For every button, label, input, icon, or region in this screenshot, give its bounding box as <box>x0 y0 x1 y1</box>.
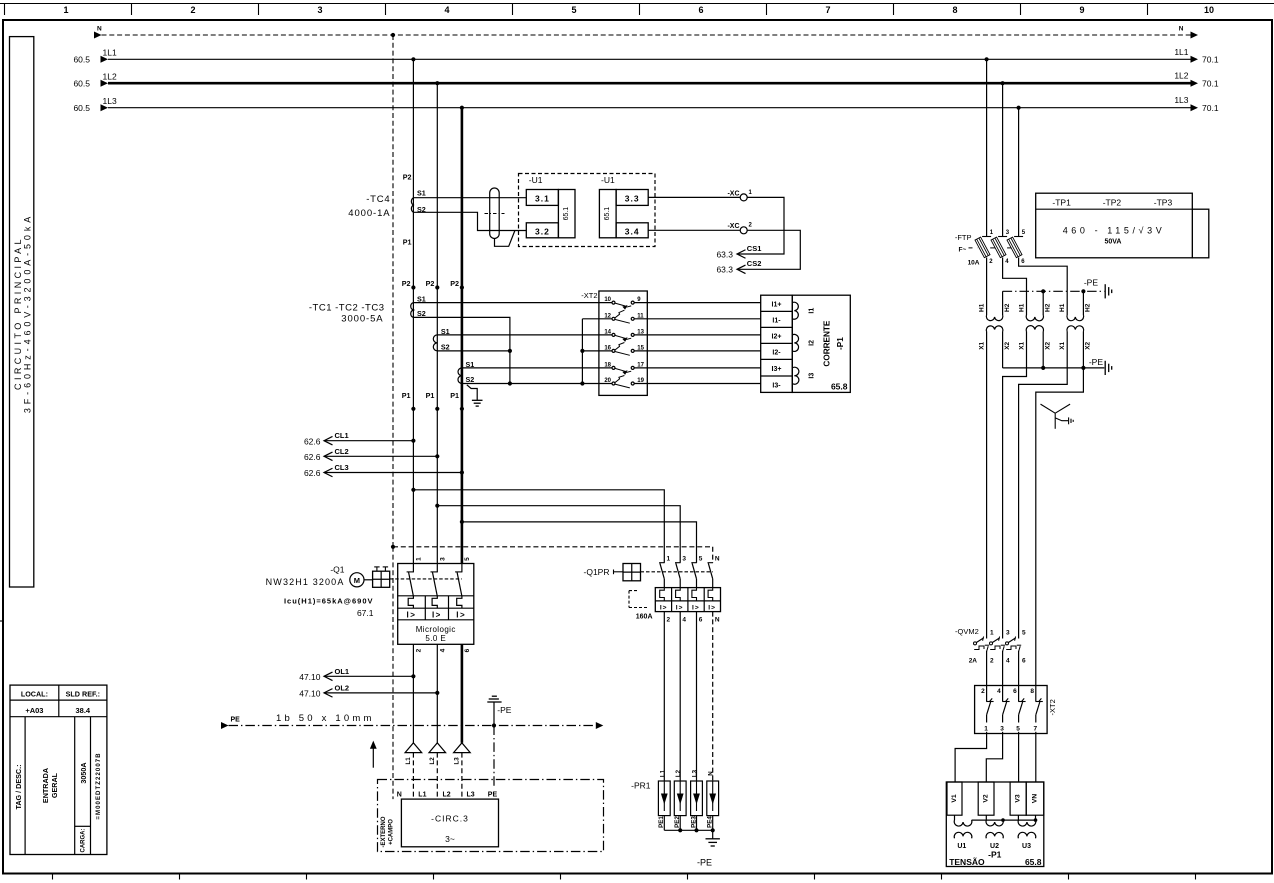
svg-text:2: 2 <box>190 5 195 15</box>
svg-text:50VA: 50VA <box>1105 239 1122 246</box>
svg-text:SLD REF.:: SLD REF.: <box>66 689 100 698</box>
wire TC3 S2 to XT2:20 <box>462 383 612 385</box>
svg-text:3.1: 3.1 <box>535 193 550 203</box>
svg-text:-P1: -P1 <box>988 850 1002 860</box>
svg-text:S1: S1 <box>417 189 426 198</box>
wire FTP1 to TP1 H1 <box>986 258 988 316</box>
svg-text:-PE: -PE <box>697 857 712 867</box>
cable termination L2 <box>429 743 446 799</box>
wire XT2:12 stub <box>582 318 612 320</box>
svg-text:12: 12 <box>604 313 611 319</box>
svg-text:H1: H1 <box>1018 303 1025 312</box>
svg-text:3050A: 3050A <box>79 762 88 783</box>
wire common to XT2:12/16 <box>581 319 583 384</box>
wire XT2 to CORRENTE <box>634 302 761 304</box>
toroid sensor oval <box>485 188 515 246</box>
wire feeder L3 thick <box>461 108 464 564</box>
svg-text:VN: VN <box>1032 794 1039 804</box>
svg-text:N: N <box>397 792 402 799</box>
svg-text:1L3: 1L3 <box>1174 95 1188 105</box>
Q1PR pole 5 <box>691 555 702 623</box>
wire XT2:5 to V3 <box>1018 734 1020 783</box>
svg-text:160A: 160A <box>636 613 653 620</box>
svg-text:1: 1 <box>63 5 68 15</box>
svg-text:N: N <box>1179 26 1184 33</box>
wire feeder L2 below Q1 <box>436 644 438 743</box>
svg-text:38.4: 38.4 <box>75 706 90 715</box>
fuse FTP pole 1/2 <box>975 59 994 265</box>
QVM2 pole 5/6 <box>1006 629 1027 685</box>
meter coil I3 <box>792 367 799 384</box>
svg-text:H1: H1 <box>1059 303 1066 312</box>
node P1 dots <box>402 391 464 411</box>
wire PE drop to CIRC.3 dash-dot <box>493 726 495 789</box>
svg-text:6: 6 <box>1013 688 1017 695</box>
svg-text:I2-: I2- <box>772 350 781 357</box>
svg-text:4: 4 <box>439 648 446 652</box>
svg-text:7: 7 <box>1033 726 1037 733</box>
svg-text:I3-: I3- <box>772 382 781 389</box>
svg-text:3: 3 <box>682 555 686 562</box>
wire XT2 to CORRENTE <box>634 318 761 320</box>
relay U1 dashed enclosure <box>519 174 656 247</box>
svg-text:1: 1 <box>984 726 988 733</box>
field arrow up <box>370 741 377 768</box>
Q1PR pole N <box>708 555 720 623</box>
svg-text:I>: I> <box>676 604 684 611</box>
svg-text:1L1: 1L1 <box>1174 47 1188 57</box>
svg-text:-XT2: -XT2 <box>581 291 597 300</box>
svg-text:P2: P2 <box>450 279 459 288</box>
wire feeder L3 below Q1 thick <box>461 644 464 743</box>
svg-text:-TC4: -TC4 <box>366 194 390 205</box>
svg-text:3.4: 3.4 <box>625 226 640 236</box>
wire Q1PR pole2 down <box>679 612 681 781</box>
svg-text:-PR1: -PR1 <box>631 780 651 790</box>
meter coil I2 <box>792 334 798 351</box>
svg-text:5: 5 <box>1022 629 1026 636</box>
svg-text:6: 6 <box>464 648 471 652</box>
Q1PR sensor/I> block <box>655 588 720 612</box>
terminal block XT2 (CT) <box>581 291 647 396</box>
title box CIRCUITO PRINCIPAL <box>10 37 34 587</box>
svg-text:65.8: 65.8 <box>831 382 848 392</box>
wire XT2 to CORRENTE <box>634 350 761 352</box>
FTP linkage dashes <box>969 247 1012 249</box>
svg-text:GERAL: GERAL <box>50 772 59 798</box>
svg-text:X2: X2 <box>1004 341 1011 349</box>
breaker QVM2 labels <box>955 627 979 664</box>
node 1L2 taps <box>435 81 439 85</box>
svg-text:-U1: -U1 <box>529 175 543 185</box>
fuse group FTP labels <box>955 233 980 266</box>
svg-text:2: 2 <box>981 688 985 695</box>
XT2 VT pole 2/1 <box>981 686 993 734</box>
svg-text:L1: L1 <box>418 792 426 799</box>
svg-text:CL3: CL3 <box>335 463 349 472</box>
meter coil U2 <box>986 815 1003 850</box>
svg-text:1b 50 x 10mm: 1b 50 x 10mm <box>276 713 375 724</box>
dashed field enclosure EXTERNO/CAMPO <box>378 780 604 852</box>
svg-text:S2: S2 <box>466 375 475 384</box>
node S2 common junctions <box>508 349 512 353</box>
XT2 VT pole 4/3 <box>997 686 1009 734</box>
svg-text:-P1: -P1 <box>836 337 845 350</box>
svg-text:3: 3 <box>317 5 322 15</box>
svg-text:-Q1: -Q1 <box>330 565 344 575</box>
svg-text:P2: P2 <box>402 279 411 288</box>
wire meter common bus <box>972 815 1038 822</box>
wire TC2 S2 <box>437 350 510 352</box>
svg-text:OL2: OL2 <box>335 683 350 692</box>
wire TC4 S1 <box>413 197 526 199</box>
svg-text:2: 2 <box>667 616 671 623</box>
svg-text:U3: U3 <box>1022 843 1031 850</box>
svg-text:PE: PE <box>488 792 498 799</box>
svg-text:1L2: 1L2 <box>1174 71 1188 81</box>
meter terminal V3 <box>1010 782 1026 815</box>
wire Q1PR pole3 down <box>696 612 698 781</box>
XT2 test link pins 14/16/13/15 <box>604 329 644 355</box>
svg-text:-TP3: -TP3 <box>1154 197 1173 207</box>
svg-text:10A: 10A <box>968 260 980 267</box>
svg-text:63.3: 63.3 <box>716 249 733 259</box>
svg-text:-FTP: -FTP <box>955 233 972 242</box>
wire H2 bus dash-dot <box>1003 289 1105 315</box>
wire tap L2 to Q1PR pole2 <box>437 506 680 563</box>
wire TP3 X1 down with jog <box>1019 332 1068 639</box>
svg-text:62.6: 62.6 <box>304 452 321 462</box>
svg-text:-TC1 -TC2 -TC3: -TC1 -TC2 -TC3 <box>309 303 385 314</box>
Q1 pole 3/4 <box>431 557 447 653</box>
svg-text:+A03: +A03 <box>25 706 43 715</box>
svg-text:X1: X1 <box>1018 341 1025 349</box>
svg-text:F~: F~ <box>959 247 967 254</box>
svg-text:6: 6 <box>1022 658 1026 665</box>
svg-text:I1+: I1+ <box>772 301 782 308</box>
svg-text:NW32H1 3200A: NW32H1 3200A <box>266 577 345 587</box>
svg-text:65.8: 65.8 <box>1025 857 1042 867</box>
QVM2 pole 3/4 <box>990 629 1011 685</box>
current transformer TC1 <box>411 303 414 318</box>
svg-text:-XC: -XC <box>727 223 739 230</box>
wire PR1 earth bus <box>664 828 715 839</box>
wire X2 bus <box>1003 332 1105 371</box>
svg-text:3: 3 <box>1006 629 1010 636</box>
wire XT2:16 stub <box>582 350 612 352</box>
svg-text:1: 1 <box>667 555 671 562</box>
svg-text:3~: 3~ <box>445 834 455 844</box>
svg-text:8: 8 <box>952 5 957 15</box>
current transformer TC4 <box>348 173 426 247</box>
svg-text:I3: I3 <box>808 373 815 379</box>
arrester PE4 <box>707 771 719 831</box>
motor operator M for Q1 <box>350 567 390 587</box>
svg-text:4: 4 <box>444 5 449 15</box>
wire TC3 S1 to XT2:18 <box>462 367 612 369</box>
XT2 test link pins 10/12/9/11 <box>604 297 644 323</box>
svg-text:P1: P1 <box>403 238 412 247</box>
ground at TC3 S2 <box>467 385 483 406</box>
svg-text:6: 6 <box>698 5 703 15</box>
arrester PE3 <box>690 769 702 830</box>
svg-text:-PE: -PE <box>1084 278 1099 288</box>
wire XC2 to CS2 <box>739 230 801 269</box>
arrester PE1 <box>658 769 670 830</box>
svg-text:PE: PE <box>231 716 241 723</box>
svg-text:I2: I2 <box>808 340 815 346</box>
wire FTP3 to TP3 H1 <box>1019 258 1068 316</box>
wire feeder L1 below Q1 <box>412 644 414 743</box>
wire XT2 to CORRENTE <box>634 383 761 385</box>
meter P1 TENSAO labels <box>949 850 1042 867</box>
cable termination L1 <box>405 743 422 799</box>
svg-text:-TP1: -TP1 <box>1052 197 1071 207</box>
node CS2 arrow <box>716 259 761 274</box>
svg-text:V2: V2 <box>983 794 990 803</box>
fuse FTP pole 5/6 <box>1007 108 1026 265</box>
Q1PR pole 1 <box>659 555 670 623</box>
svg-text:CL1: CL1 <box>335 431 349 440</box>
ground PE for H2 bus <box>1084 278 1112 299</box>
node PE bar dash-dot <box>221 713 603 729</box>
svg-text:1: 1 <box>990 629 994 636</box>
svg-text:2: 2 <box>990 658 994 665</box>
wire N horizontal dashed to Q1PR <box>393 546 713 548</box>
svg-text:X2: X2 <box>1085 341 1092 349</box>
node CL2 arrow <box>304 447 439 462</box>
svg-text:62.6: 62.6 <box>304 468 321 478</box>
meter terminal V2 <box>978 782 994 815</box>
svg-text:H2: H2 <box>1045 303 1052 312</box>
svg-text:1L1: 1L1 <box>103 48 117 58</box>
node 1L1 taps <box>411 57 415 61</box>
svg-text:H2: H2 <box>1004 303 1011 312</box>
svg-text:62.6: 62.6 <box>304 436 321 446</box>
relay U1 left unit terminals 3.1/3.2 <box>526 175 575 238</box>
svg-text:5.0 E: 5.0 E <box>425 634 446 643</box>
svg-text:-PE: -PE <box>1089 357 1104 367</box>
svg-text:-PE: -PE <box>497 705 512 715</box>
svg-text:20: 20 <box>604 378 611 384</box>
meter P1 CORRENTE labels <box>823 320 848 391</box>
meter P1 CORRENTE box <box>761 295 851 392</box>
svg-text:4: 4 <box>997 688 1001 695</box>
svg-text:+CAMPO: +CAMPO <box>389 819 395 845</box>
svg-text:P1: P1 <box>402 391 411 400</box>
arrester PE2 <box>674 769 686 830</box>
svg-text:-TP2: -TP2 <box>1103 197 1122 207</box>
wire 1L2 thick <box>73 71 1218 89</box>
meter terminal VN <box>1026 782 1044 815</box>
svg-text:-CIRC.3: -CIRC.3 <box>431 814 469 824</box>
svg-text:3.2: 3.2 <box>535 226 550 236</box>
node N junction top <box>391 33 395 37</box>
svg-text:70.1: 70.1 <box>1202 79 1219 89</box>
svg-text:L3: L3 <box>467 792 475 799</box>
svg-text:5: 5 <box>571 5 576 15</box>
XT2 test link pins 18/20/17/19 <box>604 362 644 388</box>
svg-text:L1: L1 <box>659 769 666 777</box>
svg-text:16: 16 <box>604 345 611 351</box>
terminal block XT2 (VT) <box>975 686 1058 734</box>
svg-text:S2: S2 <box>441 342 450 351</box>
svg-text:I>: I> <box>660 604 668 611</box>
svg-text:L3: L3 <box>692 769 699 777</box>
svg-text:-Q1PR: -Q1PR <box>584 567 610 577</box>
current transformer TC3 <box>458 368 462 384</box>
svg-text:ENTRADA: ENTRADA <box>41 768 50 803</box>
svg-text:1L3: 1L3 <box>103 96 117 106</box>
circuit breaker Q1 box <box>398 564 474 645</box>
svg-text:60.5: 60.5 <box>73 78 90 88</box>
wire TC1 S2 common <box>413 317 510 383</box>
Q1 pole 5/6 <box>455 557 471 653</box>
node CS1 arrow <box>716 244 761 259</box>
legend table LOCAL / SLD REF / TAG <box>10 685 107 854</box>
svg-text:N: N <box>715 616 720 623</box>
Q1PR trip linkage dashed <box>641 571 713 573</box>
ground PE above bar <box>487 696 512 727</box>
wire VN from X2 bus <box>1036 368 1084 686</box>
meter coil I1 <box>792 302 798 319</box>
svg-text:TAG / DESC.:: TAG / DESC.: <box>14 765 23 810</box>
wire FTP2 to TP2 H1 <box>1003 258 1027 316</box>
svg-text:5: 5 <box>464 557 471 561</box>
svg-text:5: 5 <box>1016 726 1020 733</box>
svg-text:3000-5A: 3000-5A <box>341 314 383 325</box>
wire TC1 S1 to XT2:10 <box>413 302 612 304</box>
connector XC pin 2 <box>648 223 752 234</box>
ground PE below PR1 <box>697 839 720 868</box>
svg-text:65.1: 65.1 <box>563 207 570 221</box>
Q1 pole 1/2 <box>407 557 423 653</box>
voltage transformer TP3 <box>1067 315 1084 321</box>
XT2 VT pole 8/7 <box>1030 686 1042 734</box>
svg-text:X1: X1 <box>979 341 986 349</box>
svg-text:47.10: 47.10 <box>299 672 321 682</box>
svg-text:-XT2: -XT2 <box>1048 699 1057 715</box>
svg-text:X2: X2 <box>1045 341 1052 349</box>
wire Q1PR N pole dashed <box>712 547 714 563</box>
svg-text:65.1: 65.1 <box>604 207 611 221</box>
svg-text:X1: X1 <box>1059 341 1066 349</box>
svg-text:I>: I> <box>692 604 700 611</box>
svg-text:P1: P1 <box>426 391 435 400</box>
svg-text:I>: I> <box>708 604 716 611</box>
svg-text:-XC: -XC <box>727 190 739 197</box>
transformer box TP1 TP2 TP3 <box>1036 193 1209 258</box>
svg-text:3.3: 3.3 <box>625 193 640 203</box>
svg-text:S2: S2 <box>417 309 426 318</box>
svg-text:CORRENTE: CORRENTE <box>823 320 832 366</box>
svg-text:N: N <box>708 771 715 776</box>
svg-text:CL2: CL2 <box>335 447 349 456</box>
wire XT2 to CORRENTE <box>634 334 761 336</box>
wire feeder L1 <box>412 59 414 563</box>
svg-text:CIRCUITO PRINCIPAL: CIRCUITO PRINCIPAL <box>13 236 23 390</box>
svg-text:L1: L1 <box>405 757 412 765</box>
svg-text:I1-: I1- <box>772 318 781 325</box>
svg-text:CARGA:: CARGA: <box>81 829 87 853</box>
svg-text:70.1: 70.1 <box>1202 103 1219 113</box>
svg-text:I>: I> <box>456 610 466 619</box>
svg-text:9: 9 <box>1079 5 1084 15</box>
svg-text:CS2: CS2 <box>747 259 762 268</box>
node P2 dots <box>402 279 464 290</box>
svg-text:3: 3 <box>439 557 446 561</box>
wire XT2:7 to VN <box>1035 734 1037 783</box>
wire Q1PR pole1 down <box>663 612 665 781</box>
svg-text:60.5: 60.5 <box>73 55 90 65</box>
svg-text:TENSÃO: TENSÃO <box>949 857 985 867</box>
svg-text:L3: L3 <box>454 757 461 765</box>
svg-text:-U1: -U1 <box>601 175 615 185</box>
ground PE for X2 bus <box>1089 357 1112 375</box>
meter terminal V1 <box>947 782 962 815</box>
svg-text:4: 4 <box>1006 658 1010 665</box>
svg-text:10: 10 <box>604 297 611 303</box>
svg-text:-QVM2: -QVM2 <box>955 627 979 636</box>
node CL3 arrow <box>304 463 464 478</box>
voltage transformer TP2 <box>1026 315 1043 321</box>
wire N vertical dashed <box>392 35 394 547</box>
Q1 I> elements <box>407 610 467 619</box>
svg-text:3F-60Hz-460V-3200A-50kA: 3F-60Hz-460V-3200A-50kA <box>23 213 33 413</box>
svg-text:H2: H2 <box>1085 303 1092 312</box>
shield grounding symbol <box>1041 404 1074 429</box>
svg-text:63.3: 63.3 <box>716 265 733 275</box>
svg-text:Micrologic: Micrologic <box>416 625 456 634</box>
svg-text:14: 14 <box>604 329 611 335</box>
svg-text:I>: I> <box>432 610 442 619</box>
node N junction mid <box>391 545 395 549</box>
wire XT2 to CORRENTE <box>634 367 761 369</box>
wire feeder L2 <box>436 83 438 563</box>
load box CIRC.3 <box>397 792 499 847</box>
svg-text:I2+: I2+ <box>772 334 782 341</box>
labels Q1 <box>266 565 374 618</box>
svg-text:2: 2 <box>416 648 423 652</box>
svg-text:70.1: 70.1 <box>1202 55 1219 65</box>
wire 1L1 <box>73 47 1218 65</box>
svg-text:M: M <box>354 576 360 585</box>
svg-text:8: 8 <box>1030 688 1034 695</box>
voltage transformer TP1 <box>986 315 1003 321</box>
Q1PR dashed trip bracket <box>629 591 653 621</box>
wire N dashed drop to CIRC.3 <box>392 547 394 799</box>
svg-text:Icu(H1)=65kA@690V: Icu(H1)=65kA@690V <box>284 596 374 605</box>
node CL1 arrow <box>304 431 416 446</box>
svg-text:3: 3 <box>1000 726 1004 733</box>
wire XC1 to CS1 <box>739 197 785 254</box>
wire XT2:3 to V2 <box>986 734 1002 783</box>
meter P1 TENSAO box <box>946 782 1044 867</box>
wire TP2 X1 down with jog <box>1003 332 1027 639</box>
svg-text:P1: P1 <box>450 391 459 400</box>
svg-text:LOCAL:: LOCAL: <box>21 689 48 698</box>
wire TP1 X1 down <box>986 332 988 639</box>
svg-text:N: N <box>715 555 720 562</box>
svg-text:I>: I> <box>407 610 417 619</box>
svg-text:P2: P2 <box>426 279 435 288</box>
svg-text:I3+: I3+ <box>772 366 782 373</box>
svg-text:460 - 115/√3V: 460 - 115/√3V <box>1063 225 1166 235</box>
svg-text:V1: V1 <box>951 794 958 803</box>
svg-text:60.5: 60.5 <box>73 103 90 113</box>
svg-text:N: N <box>97 26 102 33</box>
node 1L3 taps <box>460 106 464 110</box>
